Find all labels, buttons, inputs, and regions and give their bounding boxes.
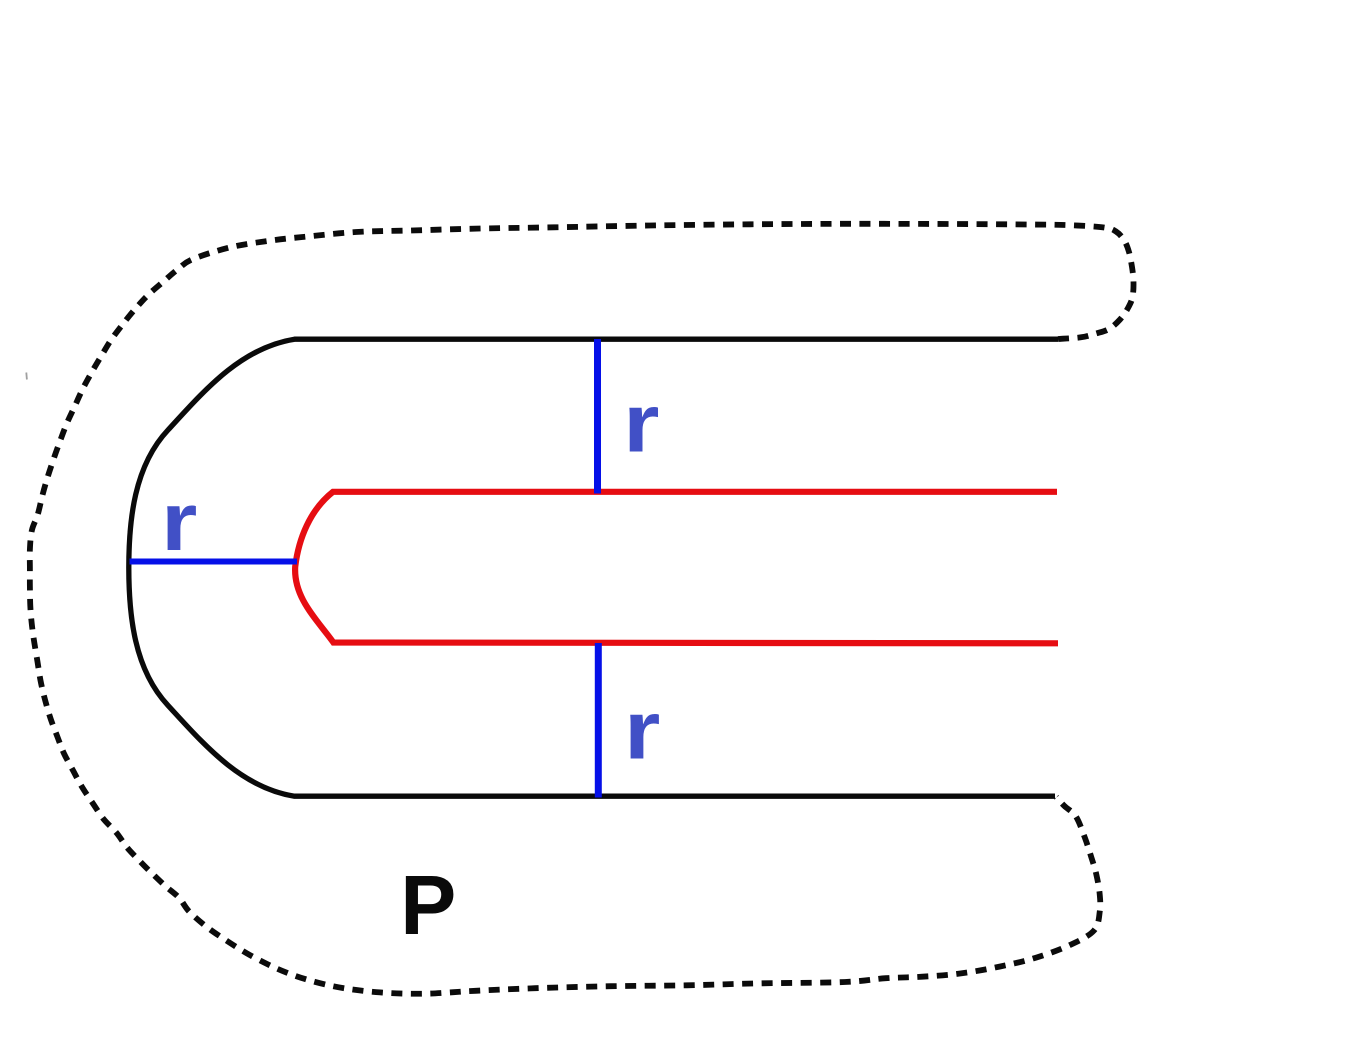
blue radius line vertical top: [594, 339, 601, 494]
svg-text:r: r: [161, 474, 197, 567]
stray gray mark: [25, 373, 28, 380]
svg-text:P: P: [400, 858, 456, 952]
black solid offset curve: [129, 339, 1058, 796]
blue radius line vertical bottom: [595, 643, 602, 798]
red inner offset curve: [295, 492, 1058, 644]
dashed boundary curve of region P: [30, 224, 1134, 994]
svg-text:r: r: [623, 376, 659, 469]
svg-text:r: r: [624, 683, 660, 776]
blue radius line horizontal left: [130, 559, 298, 565]
